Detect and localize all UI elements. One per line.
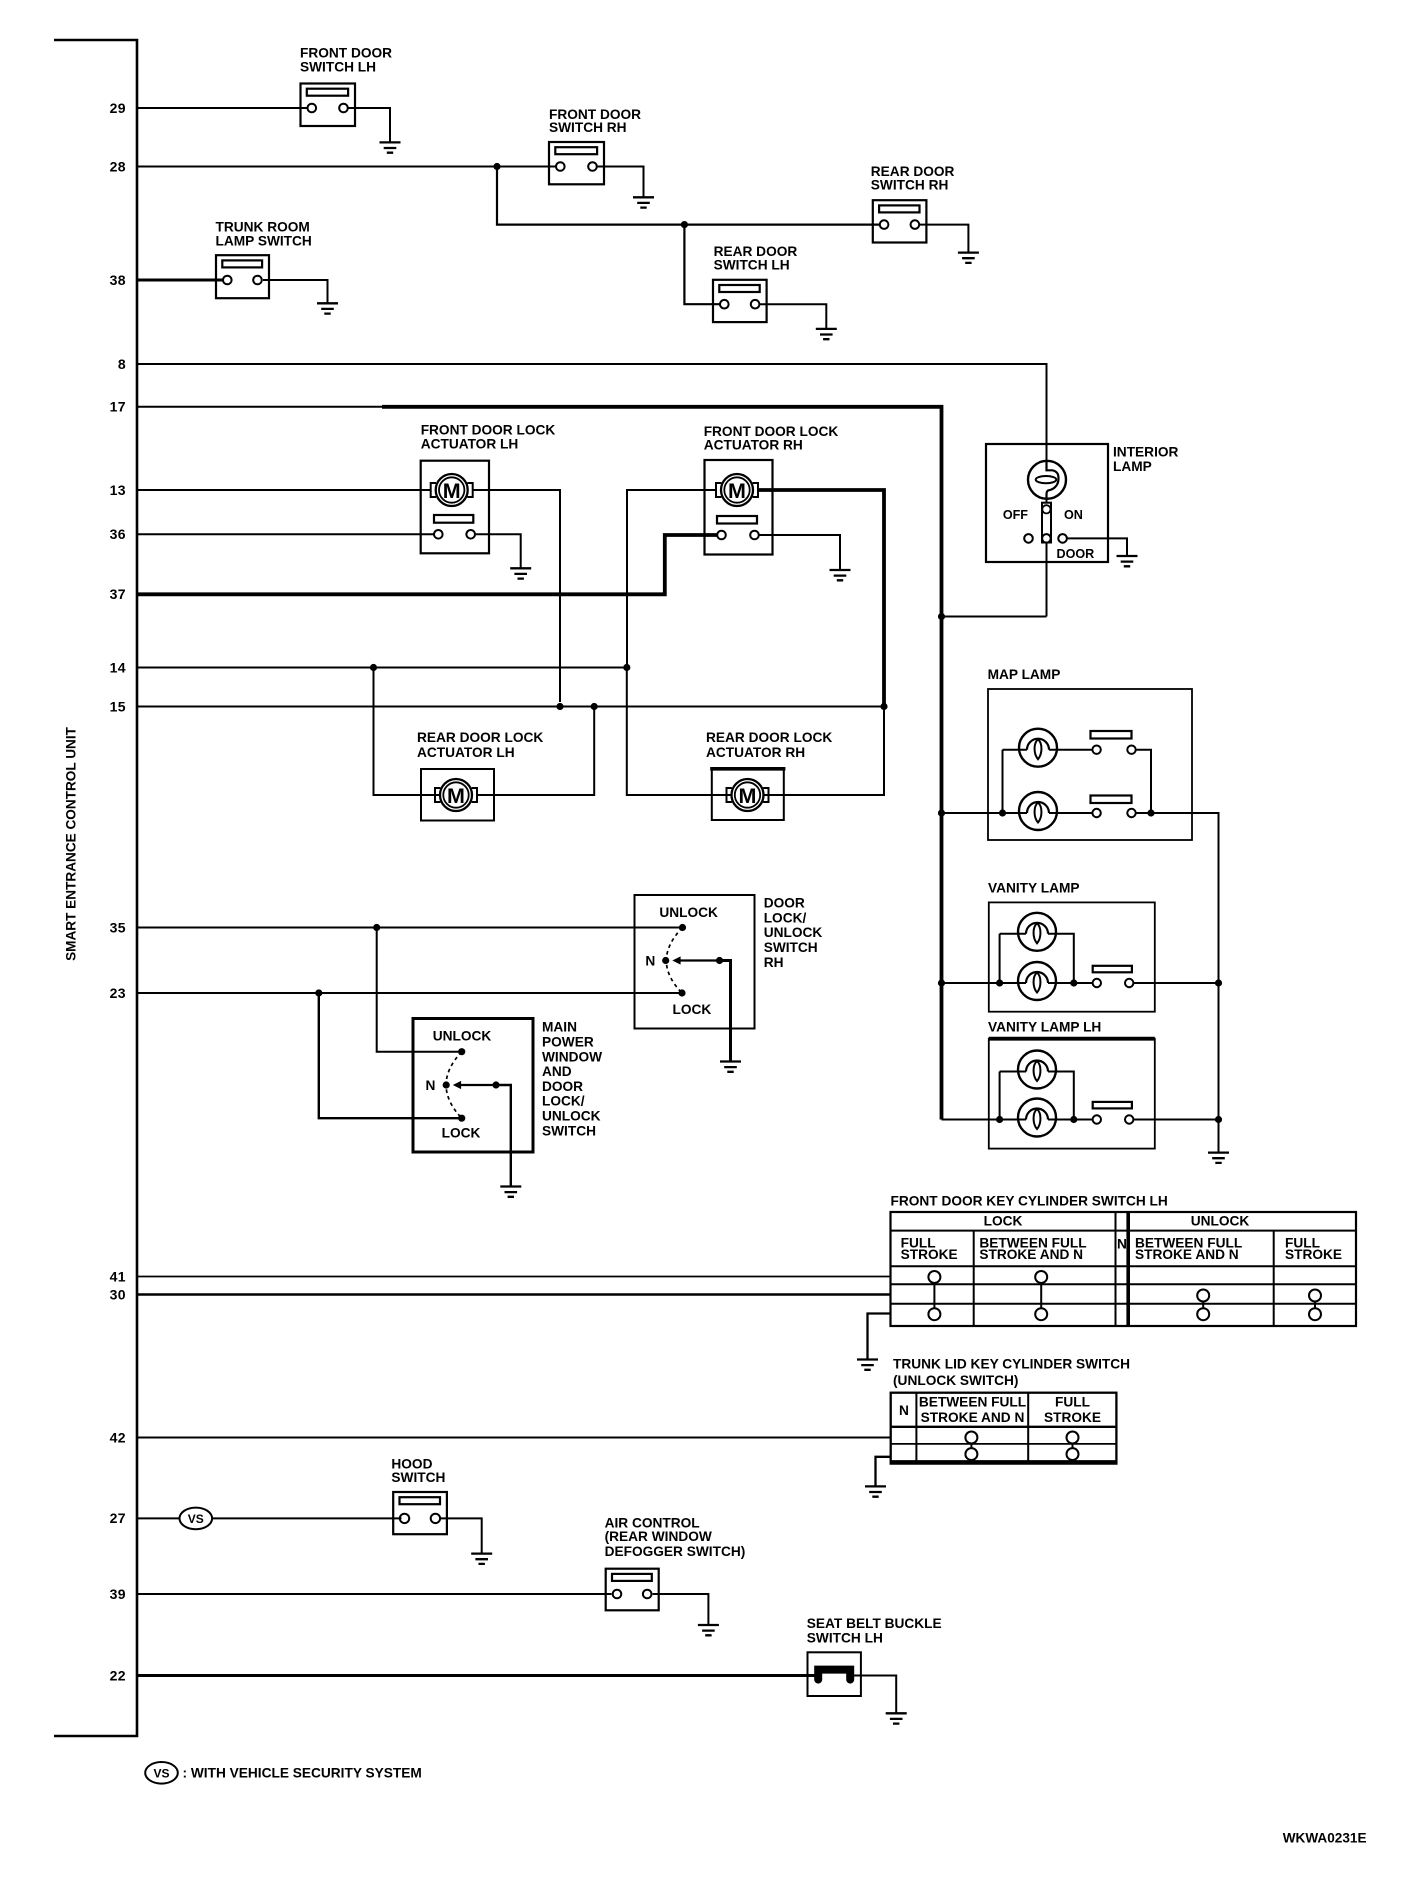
wire pin 35	[137, 927, 683, 929]
svg-text:TRUNK ROOM: TRUNK ROOM	[216, 220, 310, 235]
svg-text:VANITY LAMP: VANITY LAMP	[988, 881, 1080, 896]
front door switch RH	[549, 142, 604, 184]
contact circles interior lamp switch	[1024, 534, 1033, 543]
VS legend oval	[145, 1762, 178, 1784]
svg-text:UNLOCK: UNLOCK	[659, 905, 718, 920]
slot front door lock actuator RH	[717, 516, 757, 524]
svg-text:OFF: OFF	[1003, 508, 1028, 522]
bulb vanity lamp upper	[1018, 913, 1056, 951]
ground front door lock actuator LH	[510, 568, 531, 578]
bulb vanity lamp lower	[1018, 962, 1056, 1000]
node vanity lamp LH left	[996, 1116, 1003, 1123]
wire vanity lamp upper loop	[1000, 934, 1074, 983]
node vanity lamp right bus	[1215, 979, 1222, 986]
wire row14 down to rear door lock actuator LH	[374, 668, 441, 796]
wire vanity lamp LH lower row	[942, 1119, 1219, 1121]
svg-text:RH: RH	[764, 955, 784, 970]
ground door lock unlock switch RH	[720, 1062, 741, 1072]
ground front door switch LH	[380, 142, 401, 152]
VS connector oval	[180, 1508, 213, 1530]
slot map lamp lower switch	[1091, 796, 1132, 804]
svg-text:ON: ON	[1064, 508, 1083, 522]
ground main power window switch	[500, 1187, 521, 1197]
svg-text:ACTUATOR RH: ACTUATOR RH	[706, 745, 805, 760]
wire pin 37 thick to front door lock actuator RH lower pin	[137, 535, 717, 594]
contact circles vanity lamp switch	[1093, 979, 1101, 987]
ground map and vanity lamps	[1208, 1153, 1229, 1163]
svg-text:SWITCH LH: SWITCH LH	[807, 1631, 883, 1646]
svg-text:SWITCH LH: SWITCH LH	[300, 60, 376, 75]
node row15 from actuator LH motor	[556, 703, 563, 710]
seat belt buckle switch LH box	[808, 1652, 861, 1696]
wire hood switch to ground	[440, 1518, 481, 1553]
rear door lock actuator RH box	[712, 769, 784, 820]
rear door switch LH	[713, 280, 767, 322]
svg-text:INTERIOR: INTERIOR	[1113, 445, 1179, 460]
svg-text:22: 22	[110, 1667, 126, 1683]
wire VS connector to hood switch	[212, 1517, 401, 1519]
svg-text:N: N	[426, 1078, 436, 1093]
wire row23 branch down to main switch lock	[319, 993, 462, 1118]
door lock unlock switch RH box	[635, 895, 755, 1029]
bulb interior lamp	[1028, 461, 1066, 499]
svg-text:TRUNK LID KEY CYLINDER SWITCH: TRUNK LID KEY CYLINDER SWITCH	[893, 1357, 1130, 1372]
ground rear door switch LH	[816, 329, 837, 339]
wire pin 29 to front door switch LH	[137, 107, 308, 109]
wire: top boundary of smart entrance control unit	[54, 40, 137, 1736]
wire pin 41 to key cylinder switch	[137, 1276, 891, 1278]
svg-text:N: N	[645, 953, 655, 968]
wire air control switch to ground	[653, 1594, 709, 1625]
svg-text:SEAT BELT BUCKLE: SEAT BELT BUCKLE	[807, 1616, 942, 1631]
svg-text:30: 30	[110, 1286, 126, 1302]
svg-text:8: 8	[118, 356, 126, 372]
wire pin 42 to trunk lid key cylinder switch	[137, 1437, 891, 1439]
wire pin 14	[137, 667, 627, 669]
slot map lamp upper switch	[1091, 731, 1132, 739]
ground air control switch	[698, 1625, 719, 1635]
ground trunk room lamp switch	[317, 303, 338, 313]
wire lamp bus to interior lamp bottom	[942, 616, 1047, 618]
vanity lamp LH box	[989, 1039, 1155, 1149]
wire row35 branch down to main switch unlock	[377, 928, 462, 1052]
svg-text:STROKE: STROKE	[1044, 1410, 1101, 1425]
svg-text:M: M	[447, 784, 465, 808]
ground hood switch	[471, 1554, 492, 1564]
node vanity lamp LH mid	[1070, 1116, 1077, 1123]
wire pin 27 to VS connector	[137, 1517, 180, 1519]
wire map lamp lower row	[942, 813, 1219, 1153]
wire pin 36 to actuator LH lower pin	[137, 533, 434, 535]
svg-text:FRONT DOOR LOCK: FRONT DOOR LOCK	[421, 423, 556, 438]
svg-text:39: 39	[110, 1586, 126, 1602]
wire pin 23	[137, 992, 682, 994]
svg-text:LAMP SWITCH: LAMP SWITCH	[216, 234, 312, 249]
air control rear window defogger switch	[606, 1569, 659, 1611]
ground front door switch RH	[633, 197, 654, 207]
trunk room lamp switch	[216, 255, 269, 298]
svg-text:VS: VS	[188, 1512, 204, 1526]
wire pin 17 thin segment	[137, 406, 384, 408]
main power window switch box	[413, 1019, 533, 1153]
wire pin 8 to interior lamp	[137, 364, 1047, 461]
svg-text:STROKE AND N: STROKE AND N	[1135, 1247, 1239, 1262]
svg-text:LOCK/: LOCK/	[542, 1094, 585, 1109]
ground front door lock actuator RH	[830, 570, 851, 580]
node row23 branch	[315, 989, 322, 996]
front door lock actuator LH box	[421, 461, 489, 554]
node lamp bus to map lamp	[938, 809, 945, 816]
svg-text:AND: AND	[542, 1064, 572, 1079]
svg-text:DOOR: DOOR	[542, 1079, 583, 1094]
wire seat belt buckle switch to ground	[852, 1676, 896, 1714]
svg-text:FRONT DOOR KEY CYLINDER SWITCH: FRONT DOOR KEY CYLINDER SWITCH LH	[891, 1193, 1168, 1208]
svg-text:MAIN: MAIN	[542, 1020, 577, 1035]
wire rear actuator RH to row 15	[764, 707, 884, 796]
wire pin 38 to trunk room lamp switch	[137, 279, 223, 282]
wire pin 22 to seat belt buckle switch	[137, 1674, 816, 1677]
slot vanity lamp LH switch	[1093, 1102, 1132, 1109]
node row15 right end	[880, 703, 887, 710]
front door lock actuator RH box	[705, 460, 773, 555]
svg-text:SWITCH: SWITCH	[542, 1123, 596, 1138]
wire key cylinder switch to ground	[868, 1314, 891, 1360]
svg-text:STROKE: STROKE	[1285, 1247, 1342, 1262]
interior lamp box	[986, 444, 1108, 562]
svg-text:N: N	[899, 1403, 909, 1418]
node row14 to rear actuator LH	[370, 664, 377, 671]
wire row14 down to rear door lock actuator RH	[627, 668, 731, 796]
svg-text:FRONT DOOR: FRONT DOOR	[300, 46, 392, 61]
svg-text:UNLOCK: UNLOCK	[764, 925, 823, 940]
contacts trunk full stroke	[1067, 1432, 1079, 1444]
svg-text:17: 17	[110, 399, 126, 415]
slot vanity lamp switch	[1093, 966, 1132, 973]
wire main switch common to ground	[496, 1085, 511, 1187]
bulb map lamp lower	[1019, 792, 1057, 830]
wire pin 28 to front door switch RH	[137, 166, 556, 168]
svg-text:ACTUATOR LH: ACTUATOR LH	[421, 437, 519, 452]
vanity lamp box	[989, 902, 1155, 1011]
svg-text:VANITY LAMP LH: VANITY LAMP LH	[988, 1020, 1101, 1035]
wire rear door switch LH to ground	[759, 304, 826, 329]
node map lamp lower right	[1147, 809, 1154, 816]
contacts trunk between full stroke and n	[965, 1432, 977, 1444]
svg-text:SWITCH RH: SWITCH RH	[549, 120, 627, 135]
hood switch	[393, 1492, 447, 1534]
ground rear door switch RH	[958, 253, 979, 263]
motor M front door lock actuator RH	[721, 474, 753, 506]
svg-text:SWITCH LH: SWITCH LH	[714, 258, 790, 273]
node lamp bus to interior lamp	[938, 613, 945, 620]
svg-text:23: 23	[110, 985, 126, 1001]
node vanity lamp LH right bus	[1215, 1116, 1222, 1123]
wire switch RH common to ground	[720, 961, 731, 1062]
svg-text:DOOR: DOOR	[1057, 547, 1095, 561]
wiper arm main switch with arrowhead	[457, 1084, 497, 1086]
node junction row28	[493, 163, 500, 170]
dashed wiper main switch	[446, 1052, 462, 1119]
svg-text:ACTUATOR LH: ACTUATOR LH	[417, 745, 515, 760]
svg-text:DOOR: DOOR	[764, 896, 805, 911]
svg-text:14: 14	[110, 659, 126, 675]
svg-text:VS: VS	[153, 1766, 169, 1780]
wire junction down and across to rear door switch RH	[497, 167, 880, 225]
svg-text:STROKE AND N: STROKE AND N	[979, 1247, 1083, 1262]
svg-text:N: N	[1117, 1236, 1127, 1251]
svg-text:MAP LAMP: MAP LAMP	[988, 667, 1061, 682]
svg-text:UNLOCK: UNLOCK	[1191, 1214, 1250, 1229]
wire actuator RH motor right thick to row 15	[758, 490, 884, 707]
contact circles map lamp lower switch	[1092, 809, 1100, 817]
contacts unlock full stroke	[1309, 1290, 1321, 1302]
wire rear door switch RH to ground	[919, 225, 968, 253]
wire vanity lamp lower row	[942, 982, 1219, 984]
svg-text:STROKE AND N: STROKE AND N	[921, 1410, 1025, 1425]
bulb map lamp upper	[1019, 729, 1057, 767]
bulb vanity lamp LH lower	[1018, 1099, 1056, 1137]
wire actuator LH motor to row 15	[473, 490, 560, 702]
ground seat belt buckle switch	[886, 1713, 907, 1723]
svg-text:SWITCH: SWITCH	[764, 940, 818, 955]
node vanity lamp mid	[1070, 979, 1077, 986]
wire interior lamp bottom to lamp bus	[1046, 543, 1048, 617]
wire pin 30 to key cylinder switch	[137, 1293, 891, 1296]
wire front door switch RH to ground	[597, 167, 644, 198]
svg-text:SMART ENTRANCE CONTROL UNIT: SMART ENTRANCE CONTROL UNIT	[64, 726, 79, 961]
svg-text:15: 15	[110, 698, 126, 714]
front door switch LH	[301, 84, 356, 127]
svg-text:M: M	[739, 784, 757, 808]
wire actuator RH lower right pin to ground	[759, 535, 840, 570]
svg-text:LOCK: LOCK	[673, 1002, 712, 1017]
svg-text:: WITH VEHICLE SECURITY SYSTEM: : WITH VEHICLE SECURITY SYSTEM	[183, 1766, 422, 1781]
svg-text:LOCK: LOCK	[442, 1126, 481, 1141]
svg-text:38: 38	[110, 272, 126, 288]
svg-text:STROKE: STROKE	[901, 1247, 958, 1262]
svg-text:ACTUATOR RH: ACTUATOR RH	[704, 438, 803, 453]
contact circles vanity lamp LH switch	[1093, 1115, 1101, 1123]
wire pin 17 thick segment to lamp bus	[382, 407, 942, 1120]
svg-text:36: 36	[110, 526, 126, 542]
wire trunk lid switch to ground	[876, 1457, 891, 1487]
contact dots main switch	[458, 1048, 465, 1055]
node row35 branch	[373, 924, 380, 931]
svg-text:41: 41	[110, 1268, 126, 1284]
wire interior lamp door contact to ground	[1067, 538, 1127, 556]
contacts lock full stroke	[928, 1271, 940, 1283]
contact dots switch RH	[679, 924, 686, 931]
svg-text:28: 28	[110, 158, 126, 174]
node vanity lamp left	[996, 979, 1003, 986]
wire pin 39 to air control switch	[137, 1593, 612, 1595]
svg-text:27: 27	[110, 1510, 126, 1526]
ground front door key cylinder switch	[857, 1360, 878, 1370]
trunk lid key cylinder switch table frame	[891, 1393, 1117, 1464]
svg-text:FULL: FULL	[1055, 1394, 1090, 1409]
wiper arm switch RH with arrowhead	[676, 959, 720, 961]
svg-text:WKWA0231E: WKWA0231E	[1283, 1831, 1367, 1846]
motor M rear door lock actuator RH	[732, 779, 764, 811]
svg-text:29: 29	[110, 100, 126, 116]
svg-text:M: M	[728, 479, 746, 503]
pin circles front door lock actuator LH	[434, 530, 443, 539]
svg-text:LOCK/: LOCK/	[764, 910, 807, 925]
svg-text:LAMP: LAMP	[1113, 459, 1152, 474]
buckle contact symbol	[818, 1670, 850, 1680]
contacts lock between full stroke and n	[1035, 1271, 1047, 1283]
svg-text:(UNLOCK SWITCH): (UNLOCK SWITCH)	[893, 1373, 1018, 1388]
wire front door switch LH to ground	[348, 108, 390, 142]
motor M rear door lock actuator LH	[440, 779, 472, 811]
slot front door lock actuator LH	[434, 515, 473, 523]
contacts unlock between full stroke and n	[1197, 1290, 1209, 1302]
wire bulb to toggle	[1046, 499, 1048, 503]
svg-text:(REAR WINDOW: (REAR WINDOW	[605, 1529, 712, 1544]
node junction rear branch	[681, 221, 688, 228]
ground interior lamp	[1117, 556, 1138, 566]
svg-text:REAR DOOR LOCK: REAR DOOR LOCK	[706, 730, 832, 745]
wire pin 15	[137, 706, 884, 708]
rear door lock actuator LH box	[421, 769, 494, 821]
svg-text:M: M	[443, 479, 461, 503]
svg-text:DEFOGGER SWITCH): DEFOGGER SWITCH)	[605, 1544, 746, 1559]
pin circles front door lock actuator RH	[717, 531, 726, 540]
contact circles map lamp upper switch	[1092, 746, 1100, 754]
wire actuator LH lower right pin to ground	[475, 534, 521, 568]
wire vanity lamp LH upper loop	[1000, 1072, 1074, 1120]
map lamp box	[988, 689, 1192, 840]
dashed wiper switch RH	[666, 928, 682, 994]
node row15 to rear actuator LH	[591, 703, 598, 710]
wire map lamp upper loop	[1003, 750, 1152, 813]
bulb vanity lamp LH upper	[1018, 1051, 1056, 1089]
svg-text:42: 42	[110, 1429, 126, 1445]
svg-text:BETWEEN FULL: BETWEEN FULL	[919, 1394, 1026, 1409]
motor M front door lock actuator LH	[436, 474, 468, 506]
svg-text:37: 37	[110, 586, 126, 602]
svg-text:SWITCH: SWITCH	[391, 1470, 445, 1485]
toggle knob interior lamp switch	[1042, 503, 1051, 543]
svg-text:UNLOCK: UNLOCK	[433, 1029, 492, 1044]
ground trunk lid key cylinder switch	[865, 1486, 886, 1496]
svg-text:LOCK: LOCK	[984, 1214, 1023, 1229]
node row14 to rear actuator RH	[623, 664, 630, 671]
svg-text:13: 13	[110, 482, 126, 498]
wire pin 13 to front door lock actuator LH	[137, 489, 431, 491]
front door key cylinder switch table frame	[891, 1212, 1357, 1326]
wire trunk room lamp switch to ground	[263, 280, 328, 303]
svg-text:35: 35	[110, 919, 126, 935]
wire branch down to rear door switch LH	[684, 225, 721, 305]
node map lamp lower left	[999, 809, 1006, 816]
svg-text:WINDOW: WINDOW	[542, 1049, 602, 1064]
node lamp bus to vanity lamp	[938, 979, 945, 986]
wire row 14 branch up to actuator RH motor	[627, 490, 716, 668]
wire rear actuator LH to row 15	[477, 707, 594, 796]
svg-text:POWER: POWER	[542, 1035, 594, 1050]
svg-text:REAR DOOR LOCK: REAR DOOR LOCK	[417, 730, 543, 745]
svg-text:SWITCH RH: SWITCH RH	[871, 178, 949, 193]
rear door switch RH	[873, 200, 927, 242]
svg-text:UNLOCK: UNLOCK	[542, 1109, 601, 1124]
